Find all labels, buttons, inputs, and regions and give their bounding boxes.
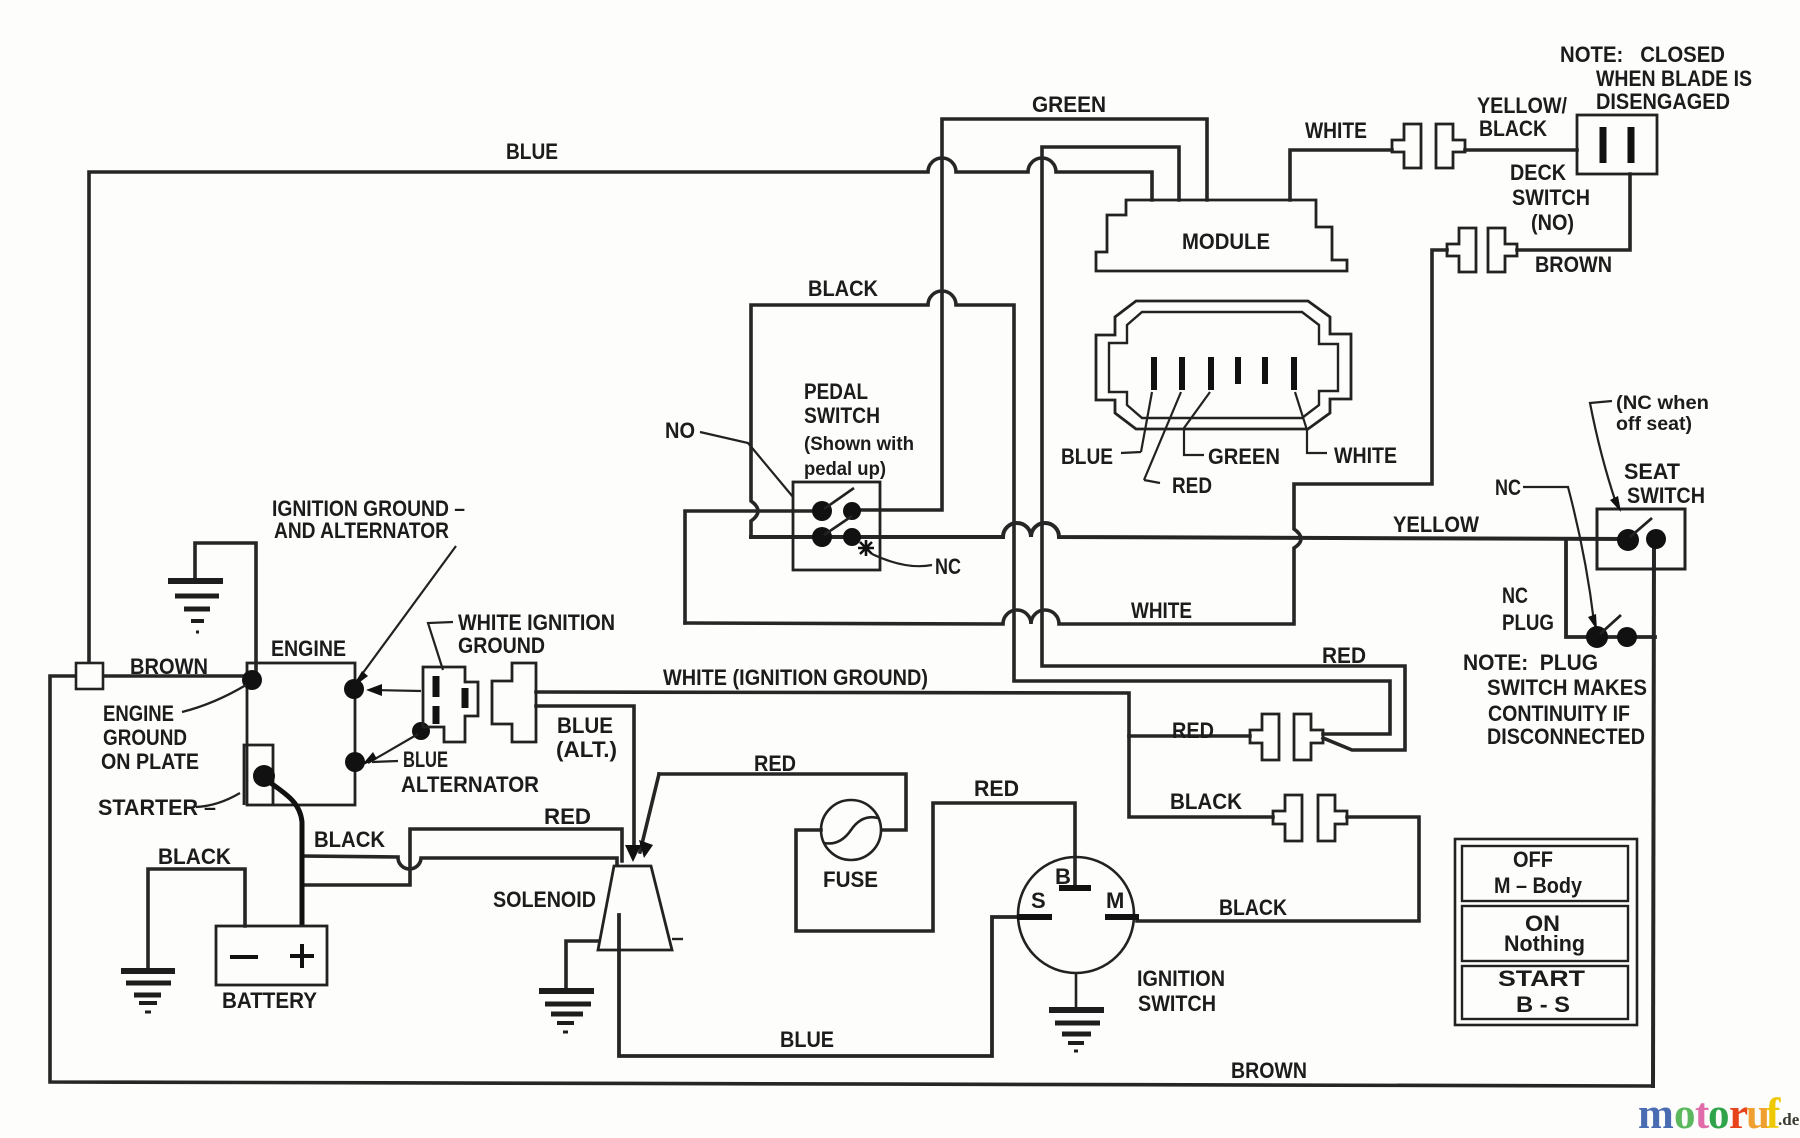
ground symbol alternator/ignition ground: [168, 581, 223, 632]
arrowhead fuse diagonal into solenoid: [639, 840, 653, 858]
svg-text:NC: NC: [935, 554, 961, 579]
svg-text:GREEN: GREEN: [1208, 444, 1280, 469]
svg-text:SWITCH: SWITCH: [1138, 991, 1216, 1016]
svg-text:BROWN: BROWN: [1535, 252, 1612, 277]
leader NC label from pedal switch: [872, 554, 932, 566]
svg-text:SWITCH: SWITCH: [804, 403, 880, 428]
wire seat switch NC plug branch: [1566, 539, 1655, 637]
wire pedal upper contact feed with left loop to white bus: [685, 511, 822, 623]
terminal M bar: [1105, 914, 1139, 920]
svg-text:NO: NO: [665, 418, 695, 443]
node starter terminal dot: [253, 765, 275, 787]
svg-text:(NO): (NO): [1531, 210, 1574, 235]
node engine right edge blue-alternator dot: [345, 752, 365, 772]
NC plug lever: [1600, 615, 1621, 634]
leader NC-when-off-seat to seat switch: [1590, 401, 1616, 503]
svg-text:DISCONNECTED: DISCONNECTED: [1487, 724, 1645, 749]
fuse element squiggle: [824, 817, 878, 843]
wire battery minus to ground: [148, 869, 245, 968]
svg-text:SWITCH: SWITCH: [1512, 185, 1590, 210]
connector white ignition ground right half: [492, 663, 536, 742]
battery box: [216, 926, 327, 985]
table cell ON: [1462, 906, 1628, 961]
svg-text:B - S: B - S: [1516, 992, 1570, 1017]
seat switch lever: [1630, 518, 1652, 537]
svg-text:BLACK: BLACK: [314, 827, 385, 852]
arrowhead blue alternator wire into solenoid: [625, 845, 641, 862]
starter terminal box inside engine: [244, 745, 273, 805]
svg-text:(Shown with: (Shown with: [804, 434, 914, 455]
leader blue alternator label dash: [372, 761, 398, 762]
svg-text:ENGINE: ENGINE: [103, 701, 174, 726]
svg-text:WHITE: WHITE: [1305, 118, 1367, 143]
svg-text:WHITE (IGNITION GROUND): WHITE (IGNITION GROUND): [663, 665, 928, 690]
svg-text:BROWN: BROWN: [1231, 1058, 1307, 1083]
NC plug contact dots: [1586, 626, 1608, 648]
leader NO label to pedal switch: [700, 432, 793, 497]
svg-text:BROWN: BROWN: [130, 654, 208, 679]
svg-text:NOTE: PLUG: NOTE: PLUG: [1463, 650, 1598, 675]
pedal switch inner box: [793, 482, 880, 570]
leader ignition ground and alternator diagonal arrow: [357, 546, 456, 681]
wire alternator ground to engine junction: [195, 543, 256, 674]
svg-text:RED: RED: [1172, 718, 1214, 743]
svg-text:GREEN: GREEN: [1032, 92, 1106, 117]
svg-text:S: S: [1031, 888, 1046, 913]
module connector pins: [1154, 357, 1294, 390]
svg-text:SOLENOID: SOLENOID: [493, 887, 596, 912]
svg-text:BLACK: BLACK: [1479, 116, 1547, 141]
wire black from starter to solenoid: [302, 856, 617, 869]
svg-text:FUSE: FUSE: [823, 867, 878, 892]
wire solenoid blue down and across to ignition S: [619, 915, 1019, 1056]
svg-text:NC: NC: [1495, 475, 1521, 500]
module body stepped outline: [1096, 200, 1347, 271]
svg-text:BLUE: BLUE: [780, 1027, 834, 1052]
svg-text:IGNITION: IGNITION: [1137, 966, 1225, 991]
battery plus symbol: [290, 944, 314, 968]
table cell START: [1462, 966, 1628, 1019]
battery minus symbol: [230, 955, 258, 959]
svg-text:BLUE: BLUE: [1061, 444, 1113, 469]
svg-text:(ALT.): (ALT.): [556, 737, 617, 762]
svg-text:M: M: [1106, 888, 1124, 913]
svg-text:off seat): off seat): [1616, 414, 1692, 435]
wire ignition ground white long run: [536, 692, 1273, 817]
seat switch contact dots: [1617, 529, 1639, 551]
svg-text:BLUE: BLUE: [557, 713, 613, 738]
svg-text:STARTER –: STARTER –: [98, 795, 216, 820]
wire YELLOW/BLACK connector to deck switch: [1465, 148, 1577, 152]
ground symbol battery: [121, 971, 175, 1012]
svg-text:pedal up): pedal up): [804, 459, 886, 480]
wire fuse branch diagonal to solenoid: [640, 774, 659, 852]
wire GREEN from module to pedal switch upper contact: [852, 119, 1207, 510]
wire BLUE top run from left boundary to module: [89, 158, 1152, 663]
svg-text:AND ALTERNATOR: AND ALTERNATOR: [274, 518, 449, 543]
svg-text:BLACK: BLACK: [1219, 895, 1287, 920]
wire BLACK pedal switch loop to red connector upper branch: [751, 291, 1390, 734]
svg-text:BLACK: BLACK: [1170, 789, 1242, 814]
wire red battery to solenoid: [302, 829, 622, 885]
deck switch box: [1577, 115, 1657, 174]
leader pin2 to RED label: [1144, 392, 1181, 483]
wire fuse to ignition B: [796, 803, 1075, 931]
wire left boundary and bottom BROWN run: [50, 676, 1653, 1086]
module connector outer shell: [1096, 301, 1351, 429]
svg-text:START: START: [1498, 966, 1586, 991]
ground symbol solenoid: [539, 991, 594, 1032]
leader pin3 to GREEN label: [1184, 392, 1210, 455]
wire fuse right feed: [659, 774, 906, 830]
svg-text:BLACK: BLACK: [808, 276, 878, 301]
svg-text:PEDAL: PEDAL: [804, 379, 868, 404]
node left boundary square junction: [76, 663, 103, 689]
wire BROWN from left node to engine: [103, 674, 247, 678]
svg-text:GROUND: GROUND: [458, 633, 545, 658]
seat switch box: [1597, 509, 1685, 569]
node connector lower pin dot: [412, 722, 430, 740]
svg-text:BLUE: BLUE: [403, 747, 448, 772]
table switch position chart outer: [1455, 839, 1637, 1025]
svg-text:ENGINE: ENGINE: [271, 636, 346, 661]
svg-text:B: B: [1055, 864, 1071, 889]
svg-text:CONTINUITY IF: CONTINUITY IF: [1488, 701, 1630, 726]
svg-text:RED: RED: [974, 776, 1019, 801]
svg-text:RED: RED: [544, 804, 591, 829]
svg-text:RED: RED: [1322, 643, 1366, 668]
wire blue alternator branch down to solenoid: [536, 706, 634, 849]
fuse circle: [821, 800, 881, 860]
connector black pair lower right: [1273, 795, 1347, 841]
terminal B bar: [1059, 885, 1091, 891]
svg-text:m: m: [1638, 1091, 1674, 1138]
leader white ignition ground label to connector: [428, 622, 453, 670]
connector white ignition ground left half: [423, 663, 536, 742]
svg-text:NC: NC: [1502, 583, 1528, 608]
leader connector pin to blue alternator dot: [368, 734, 418, 763]
svg-text:Nothing: Nothing: [1504, 931, 1585, 956]
wire WHITE bus from pedal loop to deck switch brown connector: [685, 250, 1447, 624]
connector brown pair: [1447, 228, 1517, 272]
svg-text:(NC when: (NC when: [1616, 393, 1709, 414]
node engine right edge white-ignition-ground dot: [344, 679, 364, 699]
engine box: [247, 663, 355, 805]
svg-text:WHITE IGNITION: WHITE IGNITION: [458, 610, 615, 635]
leader starter label squiggle: [196, 793, 240, 807]
leader pin6 to WHITE label: [1295, 392, 1327, 453]
wire starter heavy lead to battery plus: [264, 778, 302, 926]
svg-text:RED: RED: [754, 751, 796, 776]
svg-text:PLUG: PLUG: [1502, 610, 1554, 635]
wire WHITE top from module to deck switch connector: [1290, 150, 1392, 200]
svg-text:SEAT: SEAT: [1624, 459, 1681, 484]
wire module lead to RED branch via connector lower branch: [1042, 147, 1405, 750]
svg-text:SWITCH MAKES: SWITCH MAKES: [1487, 675, 1647, 700]
svg-text:YELLOW/: YELLOW/: [1477, 93, 1567, 118]
svg-text:OFF: OFF: [1513, 847, 1553, 872]
pedal switch lever lower: [824, 516, 852, 535]
pedal switch star mark: [858, 540, 874, 556]
leader NC to plug: [1523, 487, 1594, 622]
svg-text:ALTERNATOR: ALTERNATOR: [401, 772, 539, 797]
svg-text:BATTERY: BATTERY: [222, 988, 317, 1013]
module connector inner shell: [1109, 312, 1338, 418]
connector red pair mid right: [1250, 714, 1323, 760]
wire ignition M black loop to black connector: [1137, 817, 1419, 921]
wire solenoid case to ground: [566, 941, 598, 990]
connector pin bars white ignition ground: [436, 676, 465, 724]
wire seat switch right vertical to bottom boundary: [1653, 542, 1654, 1086]
solenoid body: [598, 866, 672, 950]
svg-text:RED: RED: [1172, 473, 1212, 498]
svg-text:WHITE: WHITE: [1131, 598, 1192, 623]
svg-text:DECK: DECK: [1510, 160, 1566, 185]
leader engine ground label squiggle: [182, 685, 246, 712]
svg-text:GROUND: GROUND: [103, 725, 187, 750]
svg-text:WHITE: WHITE: [1334, 443, 1397, 468]
svg-text:BLACK: BLACK: [158, 844, 231, 869]
svg-text:NOTE: CLOSED: NOTE: CLOSED: [1560, 42, 1725, 67]
ground symbol ignition switch: [1049, 1010, 1104, 1051]
svg-text:DISENGAGED: DISENGAGED: [1596, 89, 1730, 114]
wire YELLOW from pedal switch to seat switch: [751, 523, 1628, 539]
wire ignition switch to ground: [1075, 973, 1078, 1008]
svg-text:YELLOW: YELLOW: [1393, 512, 1479, 537]
node engine top-left junction dot: [242, 670, 262, 690]
logo motoruf.de: [1638, 1091, 1800, 1138]
wire deck switch to BROWN connector: [1517, 174, 1630, 250]
pedal switch lever upper: [824, 488, 854, 509]
svg-text:o: o: [1674, 1091, 1696, 1138]
svg-text:MODULE: MODULE: [1182, 229, 1270, 254]
pedal switch contact dots: [812, 501, 832, 521]
ignition switch circle: [1018, 857, 1134, 973]
svg-text:M – Body: M – Body: [1494, 873, 1583, 898]
leader white ignition ground arrow to engine: [372, 690, 421, 691]
svg-text:o: o: [1708, 1091, 1730, 1138]
wire red connector mid to harness vertical: [1129, 734, 1250, 738]
connector yellow/black pair: [1392, 124, 1465, 168]
leader pin1 to BLUE label: [1121, 392, 1152, 453]
svg-text:ON PLATE: ON PLATE: [101, 749, 199, 774]
terminal S bar: [1017, 914, 1052, 920]
svg-text:.de: .de: [1778, 1110, 1800, 1129]
svg-text:WHEN BLADE IS: WHEN BLADE IS: [1596, 66, 1752, 91]
svg-text:BLUE: BLUE: [506, 139, 558, 164]
deck switch contact bars: [1603, 127, 1631, 163]
table cell OFF: [1462, 846, 1628, 901]
svg-text:SWITCH: SWITCH: [1627, 483, 1705, 508]
